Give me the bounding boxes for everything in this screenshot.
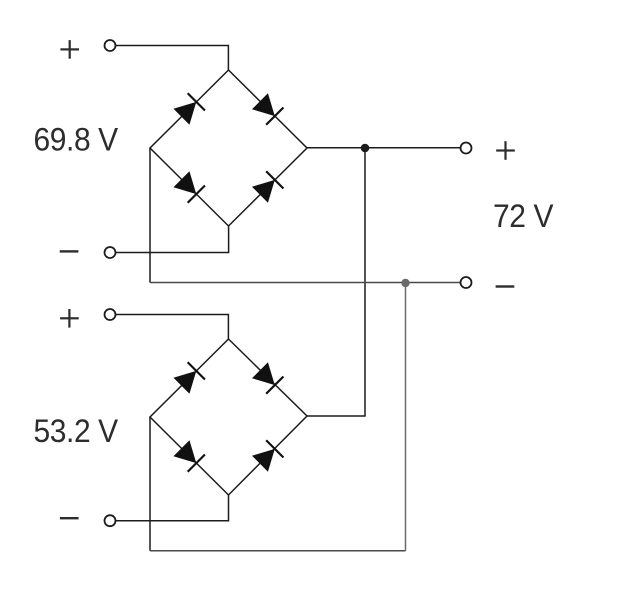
svg-text:72 V: 72 V xyxy=(493,198,554,234)
diode D3 (bridge 1, lower-left arm) xyxy=(173,171,205,203)
label: + polarity of source 1 input xyxy=(60,40,79,59)
diode D7 (bridge 2, lower-left arm) xyxy=(173,440,205,472)
diode D8 (bridge 2, lower-right arm) xyxy=(251,440,283,472)
terminal: source 2 + input xyxy=(105,309,116,320)
diode D4 (bridge 1, lower-right arm) xyxy=(251,171,283,203)
terminal: source 1 - input xyxy=(105,247,116,258)
diode D2 (bridge 1, upper-right arm) xyxy=(251,93,283,125)
bridge 1 diamond (diode ring) xyxy=(150,70,307,226)
label: - polarity of DC output xyxy=(496,285,515,287)
wire: bottom return rail (gray) xyxy=(150,550,406,552)
terminal: DC - output xyxy=(461,277,472,288)
wire: vertical link from + node down to bridge 2 output xyxy=(364,148,366,416)
label: + polarity of source 2 input xyxy=(60,309,79,328)
junction node: + output junction (black dot) xyxy=(361,144,370,153)
terminal: source 1 + input xyxy=(105,40,116,51)
diode D6 (bridge 2, upper-right arm) xyxy=(251,362,283,394)
diode D5 (bridge 2, upper-left arm) xyxy=(173,362,205,394)
wire: bridge 2 right vertex to vertical link xyxy=(307,415,366,417)
wire: bridge 1 right vertex to + output terminal xyxy=(307,147,466,149)
junction node: - output junction (gray dot) xyxy=(401,279,409,287)
svg-text:53.2 V: 53.2 V xyxy=(34,413,119,449)
label: - polarity of source 1 input xyxy=(60,250,79,252)
label: + polarity of DC output xyxy=(496,141,515,160)
terminal: source 2 - input xyxy=(105,515,116,526)
wire: bridge 2 left vertex down to bottom rail xyxy=(149,417,151,551)
terminal: DC + output xyxy=(461,143,472,154)
wire: bridge 1 left vertex down to negative rail xyxy=(149,148,151,283)
wire: - input of source 1 to bridge 1 bottom vertex xyxy=(110,226,229,253)
diode D1 (bridge 1, upper-left arm) xyxy=(173,93,205,125)
wire: vertical return from bottom rail up to gray node (gray) xyxy=(405,283,407,551)
wire: + input of source 2 to bridge 2 top vertex xyxy=(110,315,228,340)
wire: negative rail to - output terminal (gray) xyxy=(150,282,466,284)
wire: + input of source 1 to bridge 1 top vertex xyxy=(110,46,228,71)
wire: - input of source 2 to bridge 2 bottom vertex xyxy=(110,495,229,521)
label: - polarity of source 2 input xyxy=(60,517,79,519)
svg-text:69.8 V: 69.8 V xyxy=(34,122,119,158)
bridge 2 diamond (diode ring) xyxy=(150,339,307,495)
